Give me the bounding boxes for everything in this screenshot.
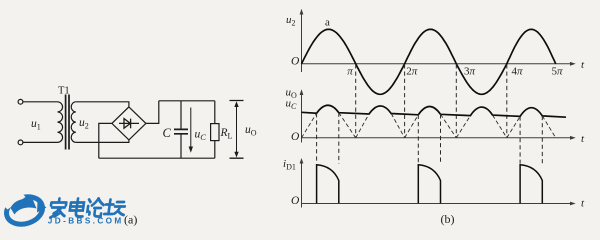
- plot3 t-axis arrowhead: [570, 202, 576, 206]
- dashed sine segment rise 0: [302, 113, 317, 138]
- wire bridge right vertex up to top rail: [146, 101, 159, 124]
- svg-text:O: O: [291, 56, 300, 68]
- bridge rectifier diamond: [112, 107, 146, 140]
- svg-text:u1: u1: [31, 118, 41, 132]
- logo char dian: [69, 199, 85, 217]
- dashed sine segment fall to pi: [339, 113, 356, 138]
- uC envelope waveform: [302, 105, 567, 117]
- svg-text:O: O: [291, 131, 300, 143]
- svg-text:2π: 2π: [406, 66, 418, 78]
- svg-text:4π: 4π: [512, 66, 524, 78]
- input terminal top: [18, 99, 23, 104]
- uC arrow: [189, 108, 193, 153]
- resistor RL lower lead: [214, 141, 216, 159]
- wire bridge left vertex to bottom rail: [99, 123, 112, 158]
- capacitor C plates: [174, 129, 188, 133]
- svg-text:iD1: iD1: [283, 158, 296, 172]
- plot1 t-axis arrowhead: [570, 62, 576, 66]
- svg-text:a: a: [325, 17, 330, 29]
- svg-text:T1: T1: [58, 86, 70, 97]
- capacitor C upper lead: [180, 101, 182, 129]
- dashed vertical pulse2 left: [417, 115, 419, 164]
- svg-text:5π: 5π: [552, 66, 564, 78]
- input terminal bottom: [18, 140, 23, 145]
- dashed vertical at pi: [355, 64, 357, 137]
- dashed vertical at 3pi: [455, 64, 457, 137]
- svg-text:JD-BBS.COM: JD-BBS.COM: [48, 217, 124, 226]
- dashed vertical at 4pi: [506, 64, 508, 137]
- wire secondary bottom to bridge bottom vertex: [76, 140, 129, 143]
- wire primary top: [23, 101, 58, 103]
- logo char lun: [87, 199, 105, 217]
- svg-text:O: O: [291, 195, 300, 207]
- iD1 pulse 1: [317, 165, 339, 203]
- svg-text:RL: RL: [220, 127, 233, 141]
- resistor RL upper lead: [214, 101, 216, 124]
- logo char jia: [49, 199, 67, 218]
- wire bottom rail: [99, 157, 215, 159]
- svg-text:uC: uC: [195, 129, 207, 143]
- svg-text:π: π: [347, 66, 353, 78]
- plot2 y-axis arrowhead: [300, 89, 304, 95]
- uO dimension arrow: [230, 101, 244, 159]
- transformer T1 core: [66, 95, 69, 150]
- plot2 t-axis: [302, 137, 572, 139]
- dashed sine segment fall to 2pi: [391, 114, 404, 138]
- plot2 t-axis arrowhead: [570, 136, 576, 140]
- dashed sine segment rise from pi: [356, 114, 369, 138]
- dashed sine segment fall to 5pi: [542, 116, 555, 138]
- svg-text:t: t: [581, 133, 585, 145]
- dashed vertical pulse1 left: [316, 113, 318, 163]
- svg-text:u2: u2: [286, 14, 296, 28]
- svg-text:C: C: [163, 126, 172, 140]
- wire top rail: [159, 100, 215, 102]
- svg-text:t: t: [581, 59, 585, 71]
- wire primary bottom: [23, 141, 58, 143]
- svg-text:t: t: [581, 198, 585, 210]
- dashed sine segment rise from 2pi: [405, 115, 419, 138]
- logo char tan: [104, 200, 126, 216]
- svg-text:3π: 3π: [464, 66, 476, 78]
- iD1 pulse 3: [520, 165, 542, 203]
- resistor RL body: [211, 124, 219, 141]
- diode symbol inside bridge: [119, 119, 139, 129]
- dashed vertical pulse1 right: [338, 113, 340, 164]
- dashed vertical at 2pi: [404, 64, 406, 137]
- transformer T1 primary winding: [58, 102, 63, 143]
- plot1 y-axis arrowhead: [300, 9, 304, 15]
- logo swirl gap: [1, 190, 26, 210]
- dashed vertical pulse3 right: [541, 116, 543, 164]
- logo tail: [37, 202, 47, 213]
- iD1 pulse 2: [418, 165, 440, 203]
- svg-text:(b): (b): [441, 212, 455, 226]
- capacitor C lower lead: [180, 134, 182, 158]
- svg-text:(a): (a): [124, 213, 137, 227]
- plot3 t-axis: [302, 203, 572, 205]
- svg-text:u2: u2: [79, 117, 89, 131]
- dashed sine segment fall to 4pi: [493, 115, 507, 138]
- u2 sine curve: [302, 29, 556, 94]
- dashed sine segment fall to 3pi: [441, 114, 457, 138]
- plot2 y-axis: [301, 94, 303, 143]
- plot3 y-axis arrowhead: [300, 158, 304, 164]
- transformer T1 secondary winding: [71, 102, 76, 143]
- plot3 y-axis: [301, 161, 303, 208]
- dashed vertical pulse2 right: [440, 114, 442, 163]
- plot1 y-axis: [301, 13, 303, 72]
- dashed sine segment rise from 3pi: [456, 116, 470, 138]
- svg-text:uO: uO: [245, 124, 257, 138]
- logo inner flag: [11, 199, 37, 215]
- plot1 t-axis: [302, 63, 572, 65]
- wire secondary top to bridge top vertex: [76, 102, 129, 107]
- dashed vertical pulse3 left: [519, 116, 521, 163]
- logo swirl icon: [3, 192, 46, 228]
- dashed sine segment rise from 4pi: [507, 116, 520, 137]
